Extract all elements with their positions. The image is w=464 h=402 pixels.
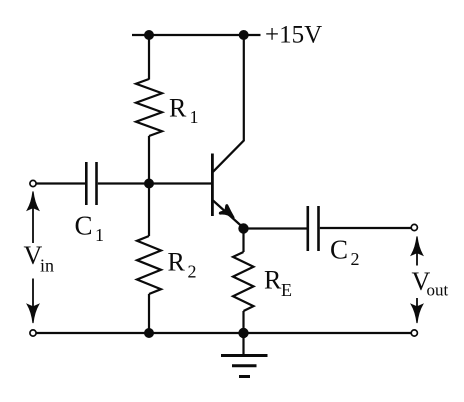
wire RE to bottom rail	[242, 311, 244, 333]
node top-right junction	[239, 30, 249, 40]
wire base node down to R2	[148, 184, 150, 237]
Vout down arrow	[411, 298, 422, 323]
transistor Q1 emitter lead	[213, 201, 243, 228]
terminal input top (open circle)	[30, 180, 36, 186]
svg-text:R: R	[264, 266, 282, 295]
wire top supply rail	[132, 34, 261, 36]
label R1	[169, 94, 199, 128]
svg-text:in: in	[40, 256, 54, 276]
terminal output bottom (open circle)	[411, 330, 417, 336]
wire from R1 to base node	[148, 136, 150, 184]
svg-text:E: E	[281, 280, 292, 300]
node top-left junction	[144, 30, 154, 40]
wire input terminal to C1	[36, 182, 85, 184]
label Vin	[24, 241, 55, 276]
wire R2 to bottom rail	[148, 294, 150, 333]
node emitter junction	[238, 223, 248, 233]
svg-text:out: out	[427, 281, 449, 300]
label C1	[75, 211, 105, 245]
wire C2 to output terminal	[320, 227, 411, 229]
terminal output top (open circle)	[411, 224, 417, 230]
capacitor C2	[308, 206, 319, 251]
label RE	[264, 266, 292, 301]
transistor Q1 emitter arrow	[220, 206, 233, 218]
svg-text:C: C	[330, 235, 348, 265]
Vin down arrow	[27, 279, 38, 324]
node bottom-left junction	[144, 328, 154, 338]
svg-text:C: C	[75, 211, 93, 241]
Vout up arrow	[411, 237, 422, 266]
svg-text:2: 2	[351, 249, 360, 269]
svg-text:1: 1	[95, 225, 104, 245]
svg-text:+15V: +15V	[265, 22, 322, 49]
svg-text:R: R	[169, 94, 187, 123]
label C2	[330, 235, 360, 270]
Vin up arrow	[27, 192, 38, 244]
resistor R1	[136, 79, 162, 136]
wire emitter down to RE	[242, 229, 244, 253]
resistor R2	[137, 236, 161, 294]
ground	[221, 333, 268, 377]
wire C1 to transistor base	[98, 182, 212, 184]
wire emitter to C2	[244, 227, 307, 229]
label R2	[168, 248, 197, 282]
wire bottom rail	[36, 332, 411, 334]
svg-text:2: 2	[188, 262, 197, 282]
transistor Q1 base bar	[211, 154, 214, 217]
terminal input bottom (open circle)	[30, 330, 36, 336]
resistor RE	[233, 252, 254, 311]
node bottom-center junction	[238, 328, 248, 338]
label Vout	[412, 267, 449, 299]
wire from top rail down to R1	[148, 35, 150, 80]
node base junction	[144, 179, 154, 189]
capacitor C1	[86, 162, 96, 205]
svg-text:R: R	[168, 248, 186, 277]
transistor Q1 collector lead	[213, 37, 244, 172]
svg-text:1: 1	[190, 107, 199, 127]
